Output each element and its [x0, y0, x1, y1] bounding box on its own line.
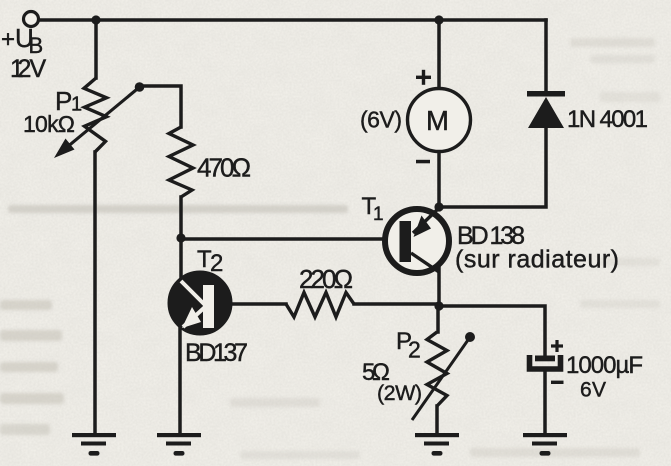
transistor T2 filled circle: [170, 273, 231, 334]
ground (T2 emitter): [157, 433, 201, 456]
svg-text:BD137: BD137: [185, 339, 248, 367]
svg-text:2: 2: [408, 337, 421, 363]
wire motor top lead: [437, 20, 441, 89]
node dot top motor: [434, 15, 443, 24]
wire T2 base to 220: [229, 302, 286, 306]
wire motor bottom to node E: [437, 152, 441, 207]
ground (capacitor): [523, 433, 567, 456]
resistor 220 zigzag: [286, 293, 354, 318]
svg-text:10kΩ: 10kΩ: [23, 111, 75, 137]
rheostat P2 zigzag: [427, 332, 447, 406]
P1 wiper dot: [135, 82, 145, 92]
potentiometer P1 zigzag: [84, 78, 107, 152]
wire P1 bottom to ground: [93, 152, 97, 433]
wire T2 emitter to ground: [178, 326, 182, 433]
capacitor minus sign: [551, 381, 564, 384]
svg-text:6V: 6V: [580, 379, 606, 402]
P2 wiper line: [412, 340, 468, 420]
wire diode anode to node E: [439, 128, 546, 207]
svg-text:220Ω: 220Ω: [299, 264, 353, 294]
ground (P1): [72, 433, 116, 456]
motor M circle: [408, 89, 471, 152]
P1 wiper arrowhead: [54, 139, 75, 159]
node B dot (T1 collector / 220 / P2 / cap): [434, 301, 443, 310]
wire P2 bottom to ground: [435, 406, 439, 433]
wire diode top lead: [544, 20, 548, 92]
svg-text:1: 1: [373, 204, 384, 225]
wire T1 collector to node B: [437, 268, 441, 306]
svg-text:470Ω: 470Ω: [197, 153, 251, 183]
wire node A to T1 base: [181, 237, 400, 241]
svg-text:1000µF: 1000µF: [566, 352, 643, 379]
wire node B to P2 top: [436, 306, 440, 332]
T1 emitter arrowhead: [414, 216, 432, 238]
diode 1N4001 triangle: [528, 97, 564, 128]
wire top rail: [39, 18, 546, 22]
ground (P2): [415, 433, 459, 456]
diode 1N4001 cathode bar: [527, 91, 565, 97]
wire P1 top lead: [94, 20, 98, 78]
T2 emitter line (white): [183, 307, 205, 327]
T1 collector line: [411, 253, 439, 272]
T2 collector line (white): [181, 281, 205, 305]
P2 wiper dot: [465, 332, 475, 342]
wire wiper node to 470 top: [140, 86, 181, 127]
wire node A to T2 collector: [179, 238, 183, 281]
capacitor cup (negative plate): [530, 355, 561, 369]
wire 470 bottom to node A: [179, 197, 183, 238]
svg-text:1N 4001: 1N 4001: [567, 106, 648, 133]
terminal +UB: [24, 12, 39, 27]
svg-text:(2W): (2W): [377, 381, 422, 405]
node A dot (470 / T1 base / T2 collector): [176, 233, 185, 242]
resistor 470 zigzag: [169, 127, 193, 197]
motor minus sign: [416, 160, 430, 164]
svg-text:+: +: [1, 26, 15, 53]
wire 220 to node B: [354, 302, 439, 306]
wire capacitor to ground: [543, 371, 547, 433]
transistor T1 circle: [385, 209, 449, 273]
node dot top P1: [91, 15, 100, 24]
T1 emitter line: [413, 206, 441, 233]
T2 base bar (white): [203, 285, 214, 328]
capacitor plus sign: [551, 340, 563, 352]
P1 wiper arrow line: [66, 88, 139, 149]
capacitor 1000uF top plate: [535, 356, 555, 362]
svg-text:(sur radiateur): (sur radiateur): [455, 246, 619, 274]
svg-text:(6V): (6V): [360, 107, 402, 133]
T2 emitter arrowhead (white): [182, 307, 201, 328]
T1 base bar: [400, 221, 412, 262]
node E dot (motor minus / T1 emitter / diode anode): [434, 202, 443, 211]
motor plus sign: [416, 70, 431, 85]
svg-text:M: M: [426, 105, 449, 136]
wire node B to capacitor: [439, 306, 545, 356]
svg-text:V: V: [30, 55, 47, 83]
svg-text:2: 2: [210, 250, 223, 277]
